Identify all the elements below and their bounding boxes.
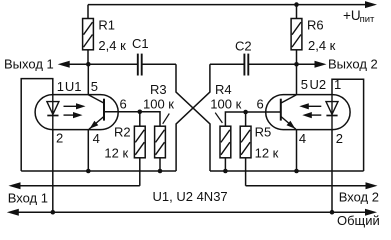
- svg-text:R1: R1: [98, 18, 115, 33]
- U2 pin 1 wire to right rail: [332, 79, 364, 171]
- +U supply arrow: [365, 1, 377, 8]
- svg-text:пит: пит: [360, 14, 375, 25]
- resistor R3: [155, 126, 166, 171]
- junction base U2 / R5 top: [243, 110, 248, 115]
- junction R4 bottom: [223, 169, 228, 174]
- U2 phototransistor: [281, 95, 297, 129]
- output arrow Выход 2: [297, 63, 316, 65]
- U1 pin 1 wire to left rail: [21, 79, 53, 171]
- svg-text:2,4 к: 2,4 к: [98, 38, 126, 53]
- U1 pin 2 wire down to common: [52, 130, 54, 213]
- R4 label leader line: [215, 113, 222, 123]
- svg-text:1: 1: [334, 77, 341, 92]
- svg-text:12 к: 12 к: [104, 145, 128, 160]
- wire node1 to C1: [88, 63, 137, 65]
- svg-text:R3: R3: [150, 82, 167, 97]
- junction pin4 U1 on bottom wire: [86, 169, 91, 174]
- junction pin4 U2 on bottom wire: [294, 169, 299, 174]
- node Выход 1 junction: [86, 62, 91, 67]
- U2 base wire pin 6 to R4: [225, 112, 280, 126]
- U2 pin 4 wire: [296, 130, 298, 171]
- resistor R2: [134, 112, 145, 186]
- node Выход 2 junction: [294, 62, 299, 67]
- svg-text:2: 2: [336, 131, 343, 146]
- input line Вход 2: [246, 185, 366, 187]
- junction U2 pin 2 on common: [330, 210, 335, 215]
- U1 base wire pin 6 to R3: [104, 112, 160, 126]
- svg-text:C2: C2: [235, 38, 252, 53]
- wire cross to C2: [210, 63, 244, 65]
- U1 pin 5 wire: [87, 64, 89, 94]
- svg-text:Выход 2: Выход 2: [328, 57, 378, 72]
- optocoupler U1 body: [35, 95, 118, 130]
- junction U1 pin 2 on common: [51, 210, 56, 215]
- U2 pin 2 wire down to common: [331, 130, 333, 213]
- svg-text:Общий: Общий: [337, 213, 380, 228]
- optocoupler U2 body: [266, 95, 350, 130]
- cross-coupling wire C1 to right bottom net: [176, 64, 210, 171]
- wire C2 to node2: [248, 63, 296, 65]
- svg-text:+U: +U: [343, 8, 361, 23]
- U2 LED (pins 1-2): [326, 95, 338, 130]
- resistor R5: [240, 112, 251, 186]
- U1 phototransistor: [88, 95, 104, 129]
- svg-text:6: 6: [257, 96, 264, 111]
- svg-text:U2: U2: [310, 77, 327, 92]
- svg-text:R6: R6: [307, 18, 324, 33]
- common rail Общий: [7, 209, 19, 216]
- resistor R6: [291, 5, 302, 65]
- svg-text:R4: R4: [215, 82, 232, 97]
- wire +U supply top rail: [88, 4, 366, 6]
- svg-text:6: 6: [120, 96, 127, 111]
- svg-text:12 к: 12 к: [255, 145, 279, 160]
- svg-text:U1: U1: [65, 79, 82, 94]
- junction base U1 / R2 top: [138, 110, 143, 115]
- junction R3 bottom: [158, 169, 163, 174]
- svg-text:100 к: 100 к: [143, 96, 174, 111]
- svg-text:100 к: 100 к: [210, 96, 241, 111]
- svg-text:U1, U2 4N37: U1, U2 4N37: [153, 189, 228, 204]
- input line Вход 1: [9, 182, 21, 189]
- R3 label leader line: [163, 114, 170, 124]
- U1 LED (pins 1-2): [47, 95, 59, 130]
- junction node on +U rail above R6: [294, 2, 299, 7]
- svg-text:R5: R5: [255, 125, 272, 140]
- wire C1 to cross: [142, 63, 176, 65]
- resistor R1: [83, 5, 94, 65]
- svg-text:Вход 2: Вход 2: [339, 189, 379, 204]
- capacitor C2: [244, 54, 248, 76]
- U2 light arrows: [299, 103, 321, 118]
- svg-text:2,4 к: 2,4 к: [308, 38, 336, 53]
- capacitor C1: [138, 54, 142, 76]
- svg-text:4: 4: [93, 131, 100, 146]
- right emitter/bottom wire: [210, 170, 364, 172]
- svg-text:5: 5: [91, 79, 98, 94]
- svg-text:Вход 1: Вход 1: [8, 190, 48, 205]
- U1 pin 4 wire: [87, 130, 89, 171]
- svg-text:5: 5: [301, 77, 308, 92]
- svg-text:2: 2: [56, 130, 63, 145]
- output arrow Выход 1: [69, 63, 88, 65]
- svg-text:C1: C1: [132, 36, 149, 51]
- left emitter/bottom wire: [21, 170, 176, 172]
- svg-text:R2: R2: [114, 125, 131, 140]
- svg-text:Выход 1: Выход 1: [4, 57, 54, 72]
- cross-coupling wire C2 to left bottom net: [176, 64, 210, 171]
- U1 light arrows: [64, 103, 86, 118]
- svg-text:1: 1: [57, 79, 64, 94]
- svg-text:4: 4: [299, 131, 306, 146]
- U2 pin 5 wire: [296, 64, 298, 94]
- resistor R4: [220, 126, 231, 171]
